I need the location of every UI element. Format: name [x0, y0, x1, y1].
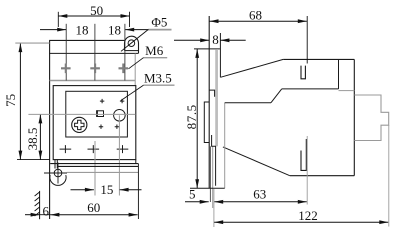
- reset button circle: [114, 110, 126, 122]
- label M6 underline: [143, 57, 167, 59]
- upper terminal screw + 1: [61, 64, 71, 74]
- inner contour horizontal 1: [225, 102, 271, 104]
- body left edge + 60/6 extension line: [49, 40, 51, 219]
- bottom strip line 2: [57, 165, 138, 167]
- top slope: [220, 59, 283, 77]
- foot cross horizontal: [44, 172, 67, 174]
- dim 15 right arrow: [120, 189, 142, 191]
- flange lower step: [212, 135, 216, 186]
- upper terminal screw + 2: [90, 64, 100, 74]
- svg-text:75: 75: [3, 94, 18, 107]
- dim 38.5 line: [39, 114, 41, 159]
- adjust screw circle with cross: [72, 117, 87, 132]
- body right edge: [353, 59, 355, 175]
- dim 8 left arrow: [174, 39, 209, 41]
- flange lower inner line 2: [212, 146, 214, 208]
- dim 6 hatch line: [39, 191, 41, 219]
- svg-text:M6: M6: [145, 43, 164, 58]
- face plate rect: [53, 86, 136, 160]
- dim 50 ext left: [57, 12, 59, 27]
- svg-text:Φ5: Φ5: [151, 15, 167, 30]
- bottom strip line 1: [50, 163, 138, 165]
- lower center line mid: [94, 141, 96, 196]
- terminal center line 3: [124, 24, 126, 81]
- flange inner gray line 2: [216, 49, 218, 146]
- flange top edge: [194, 48, 220, 50]
- right terminal block gray outline: [354, 95, 388, 141]
- body bottom gray line: [67, 171, 139, 173]
- inner contour diagonal: [271, 89, 282, 103]
- dim 50 line: [58, 15, 129, 17]
- lower terminal screw + 1: [60, 145, 72, 153]
- clip hook top: [209, 90, 214, 97]
- dim 18 right arrow: [125, 29, 150, 31]
- lower terminal screw + 2: [88, 145, 100, 153]
- bottom flat edge: [290, 175, 355, 177]
- foot arc: [50, 175, 66, 185]
- dim 63 line: [214, 201, 307, 203]
- terminal block bottom gray line: [50, 80, 136, 82]
- top-right block left edge: [338, 59, 340, 89]
- body back edge gray: [224, 103, 226, 189]
- svg-text:38.5: 38.5: [25, 128, 40, 151]
- top flat edge: [283, 58, 354, 60]
- small + mark a: [100, 99, 104, 103]
- bottom slot: [301, 139, 306, 170]
- indicator square: [97, 111, 104, 117]
- hole Phi5 in lug: [128, 40, 135, 47]
- svg-text:50: 50: [90, 3, 103, 18]
- svg-text:63: 63: [253, 187, 266, 202]
- dim 60 ext right: [137, 164, 139, 219]
- svg-text:60: 60: [87, 200, 100, 215]
- bottom slope: [223, 147, 290, 176]
- lower terminal screw + 3: [117, 145, 129, 153]
- label M3.5 leader: [121, 85, 144, 100]
- body top edge: [49, 39, 125, 41]
- dim 15 left arrow: [71, 189, 94, 191]
- dim 18 left arrow: [40, 29, 66, 31]
- svg-text:M3.5: M3.5: [144, 71, 172, 86]
- dim 38.5 top ref gray: [28, 113, 135, 115]
- dim 63 ext right: [306, 136, 308, 205]
- dim 60 line: [50, 214, 137, 216]
- svg-text:15: 15: [100, 182, 113, 197]
- top strip bottom line: [49, 52, 138, 54]
- inner contour horizontal 2: [282, 88, 339, 90]
- label M6 leader: [129, 58, 144, 69]
- svg-text:8: 8: [212, 32, 219, 47]
- dim 75 line: [19, 43, 21, 160]
- clip left bump: [204, 102, 209, 143]
- dim 75 top ref gray: [15, 42, 49, 44]
- upper terminal screw + 3: [119, 64, 129, 74]
- inner panel rect: [66, 91, 128, 137]
- body right edge upper gray: [134, 53, 136, 85]
- dim 6 arrow: [25, 214, 40, 216]
- lower center line right: [118, 115, 120, 195]
- small + mark d: [115, 125, 119, 129]
- dim 50 ext right: [129, 12, 131, 27]
- svg-text:6: 6: [43, 204, 50, 219]
- label Phi5 leader: [121, 29, 148, 51]
- plate right edge lower extension: [135, 160, 137, 164]
- small + mark b: [120, 99, 124, 103]
- svg-text:18: 18: [108, 22, 121, 37]
- dim 87.5 line: [196, 49, 198, 188]
- flange right top edge + 8 ext: [219, 33, 221, 77]
- dim 122 line: [214, 221, 388, 223]
- svg-text:122: 122: [298, 208, 318, 223]
- foot cross vertical: [57, 163, 59, 184]
- svg-text:68: 68: [249, 7, 262, 22]
- foot pivot circle: [54, 169, 62, 177]
- label Phi5 underline: [148, 29, 171, 31]
- top slot: [301, 66, 305, 79]
- flange inner gray line 1: [215, 49, 217, 146]
- dim 68 ext right: [306, 16, 308, 64]
- flange lower inner line 1: [209, 146, 211, 202]
- terminal center line 1: [65, 24, 67, 81]
- dim 63 ext left: [213, 189, 215, 227]
- dim 122 ext right: [388, 125, 390, 227]
- dim 75 bottom ref: [17, 159, 50, 161]
- small + mark c: [99, 125, 103, 129]
- label M3.5 underline: [143, 84, 174, 86]
- svg-text:87.5: 87.5: [184, 104, 199, 129]
- terminal center line 2: [94, 24, 96, 81]
- svg-text:5: 5: [189, 187, 196, 202]
- foot attachment verticals: [55, 160, 57, 169]
- flange bottom line / 87.5 bottom ref: [190, 187, 225, 189]
- dim 8 right arrow: [220, 39, 245, 41]
- dim 5 left arrow: [185, 201, 209, 203]
- mounting lug top-right with arc: [125, 36, 139, 53]
- top-right block bottom gray: [339, 90, 355, 92]
- flange left edge + 68/8 extension: [208, 16, 210, 188]
- lug bottom line: [125, 50, 139, 52]
- svg-text:18: 18: [76, 22, 89, 37]
- dim 68 line: [210, 20, 307, 22]
- dim 6 hatch ticks: [35, 192, 40, 216]
